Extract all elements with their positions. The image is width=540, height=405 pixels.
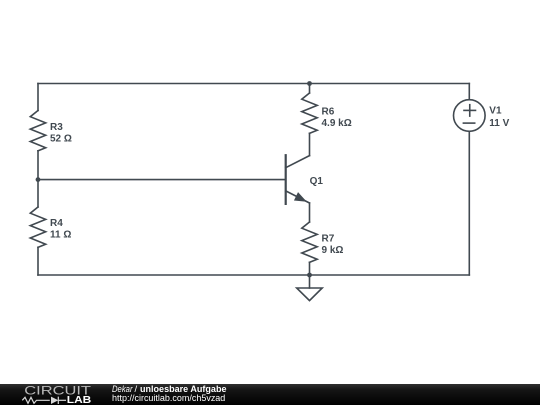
svg-text:R6: R6 xyxy=(322,106,335,117)
svg-text:4.9 kΩ: 4.9 kΩ xyxy=(322,118,352,129)
svg-text:Q1: Q1 xyxy=(310,176,324,187)
svg-text:R3: R3 xyxy=(50,122,63,133)
svg-text:LAB: LAB xyxy=(67,395,92,405)
svg-text:http://circuitlab.com/ch5vzad: http://circuitlab.com/ch5vzad xyxy=(112,393,225,404)
svg-text:R7: R7 xyxy=(322,233,335,244)
svg-text:9 kΩ: 9 kΩ xyxy=(322,245,344,256)
svg-text:11 Ω: 11 Ω xyxy=(50,229,71,240)
svg-text:52 Ω: 52 Ω xyxy=(50,134,72,145)
svg-text:R4: R4 xyxy=(50,218,63,229)
svg-text:V1: V1 xyxy=(489,106,502,117)
svg-text:11 V: 11 V xyxy=(489,118,509,129)
